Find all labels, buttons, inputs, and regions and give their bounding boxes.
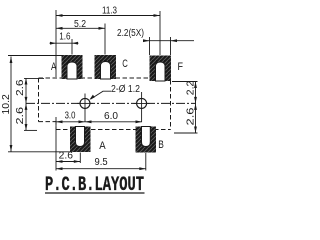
label 2-dia 1.2 with leader [89,84,140,100]
body notch vertical edge at datum (dashed) [55,122,57,130]
svg-text:2.6: 2.6 [15,79,26,96]
dimension 5.2 [56,19,105,30]
svg-text:C: C [122,58,128,70]
dimension 1.6 [50,32,79,45]
extension line pad1 center x=72 [71,39,73,55]
body notch bottom-left horizontal edge (dashed) [39,121,57,123]
dimension 6.0 [85,111,142,123]
svg-text:6.0: 6.0 [104,111,118,122]
hole 2 [137,98,147,108]
svg-text:A: A [99,140,106,152]
dimension 2.2/2.6 (right pair, vertical) [172,80,198,133]
dimension 2.6 (bottom) [56,151,80,163]
hole 1 center mark vertical [84,94,86,122]
svg-text:10.2: 10.2 [1,94,12,115]
body outline top edge (dashed) [39,77,171,79]
svg-text:2.2: 2.2 [186,80,197,95]
hole 1 (2-dia1.2) [80,98,90,108]
extension line pad B bottom center x=145.8 [145,153,147,171]
extension line pad3 left x=149.5 [149,37,151,55]
dimension 11.3 [56,6,160,17]
svg-text:B: B [158,139,164,151]
svg-text:2-Ø 1.2: 2-Ø 1.2 [111,84,140,95]
body outline right edge (dashed) [170,80,172,130]
body outline left edge (dashed) [38,78,40,122]
extension line pad2 center x=105 [104,24,106,55]
svg-text:11.3: 11.3 [102,6,117,17]
hole 1 center mark horizontal [77,102,93,104]
title underline [45,192,145,194]
svg-text:2.6: 2.6 [59,151,74,162]
pad C top-middle [95,55,117,79]
pad A bottom-left [70,127,91,153]
dimension 9.5 [56,157,146,170]
extension line pad3 center x=160 [159,11,161,55]
extension line datum vertical x=56 (top) [55,10,57,77]
extension line datum vertical x=56 (bottom) [55,117,57,171]
svg-text:F: F [178,61,184,73]
svg-text:1.6: 1.6 [59,32,71,43]
svg-text:3.0: 3.0 [65,111,76,122]
center line horizontal (dash-dot) [26,102,196,104]
hole 2 center mark horizontal [134,102,150,104]
extension line pad A bottom center x=80.3 [79,153,81,164]
svg-text:5.2: 5.2 [74,19,86,30]
pad F top-right [150,56,172,82]
extension line pad3 right x=170.5 [170,37,172,55]
pad A top-left [62,55,83,79]
dimension 2.6/2.6 (left pair, vertical) [15,78,44,131]
svg-text:2.2(5X): 2.2(5X) [117,28,144,39]
dimension 10.2 (left, vertical) [1,56,70,152]
dimension 3.0 [56,111,85,124]
svg-text:2.6: 2.6 [186,107,197,126]
body outline bottom edge (dashed) [56,129,171,131]
hole 2 center mark vertical [141,92,143,122]
dimension 2.2(5X) (outside arrows) [117,28,194,42]
svg-text:2.6: 2.6 [15,106,26,124]
svg-text:9.5: 9.5 [95,157,109,168]
pad B bottom-right [136,127,157,153]
